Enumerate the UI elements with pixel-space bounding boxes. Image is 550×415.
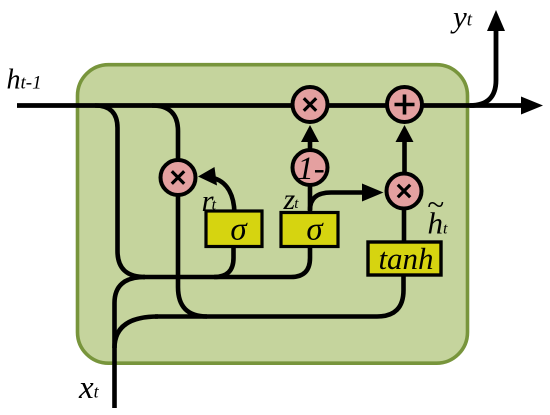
arrowhead: into multiply (1-z) [301, 125, 319, 142]
wire: branch up to y(t) [470, 28, 496, 106]
op: reset multiply circle [161, 160, 196, 195]
wire: z(t) branch curving right toward update multiply [310, 193, 364, 211]
arrowhead: r(t) into reset multiply [198, 167, 217, 186]
wire: riser from sigma feed into sigma_r bottom [214, 244, 234, 277]
op: multiply circle (1-z)*h on main line [293, 87, 328, 122]
wire: tanh feed horizontal into tanh bottom [155, 273, 404, 317]
wire: sigma_z output up to 1- circle [308, 183, 313, 214]
wire: x(t) input vertical, top bend merging sigma feed [115, 277, 146, 408]
wire: x(t) fork to tanh feed horizontal [115, 317, 159, 349]
wire: main h(t-1) horizontal line [17, 103, 524, 108]
arrowhead: z(t) into update multiply [362, 184, 384, 202]
gate: sigma_z box [281, 213, 338, 247]
svg-text:σ: σ [306, 212, 324, 248]
wire: sigma feed horizontal to sigma_z bottom [143, 244, 310, 277]
wire: sigma_r output curving left toward reset multiply [215, 179, 235, 214]
op: 1- circle [293, 150, 328, 185]
wire: h branch down at x=178 through reset multiply, bend to tanh feed [152, 106, 207, 317]
GRU cell box [78, 65, 468, 364]
svg-text:1-: 1- [297, 151, 325, 187]
op: update multiply circle [387, 174, 422, 209]
gate: tanh box [368, 242, 441, 275]
arrowhead: h(t) output right [521, 97, 543, 115]
gate: sigma_r box [206, 211, 262, 247]
svg-text:~: ~ [427, 187, 444, 222]
arrowhead: into plus [396, 125, 414, 142]
arrowhead: y(t) output up [487, 10, 505, 31]
wire: update multiply down to tanh top [402, 209, 407, 243]
svg-text:tanh: tanh [378, 241, 433, 276]
wire: h branch down at x=117 to sigma feed horizontal [95, 106, 145, 278]
wire: arrow from update multiply up to plus [402, 140, 407, 173]
op: plus circle on main line [387, 87, 422, 122]
wire: arrow from 1- circle up to multiply on main line [308, 136, 313, 150]
svg-text:σ: σ [230, 212, 248, 248]
